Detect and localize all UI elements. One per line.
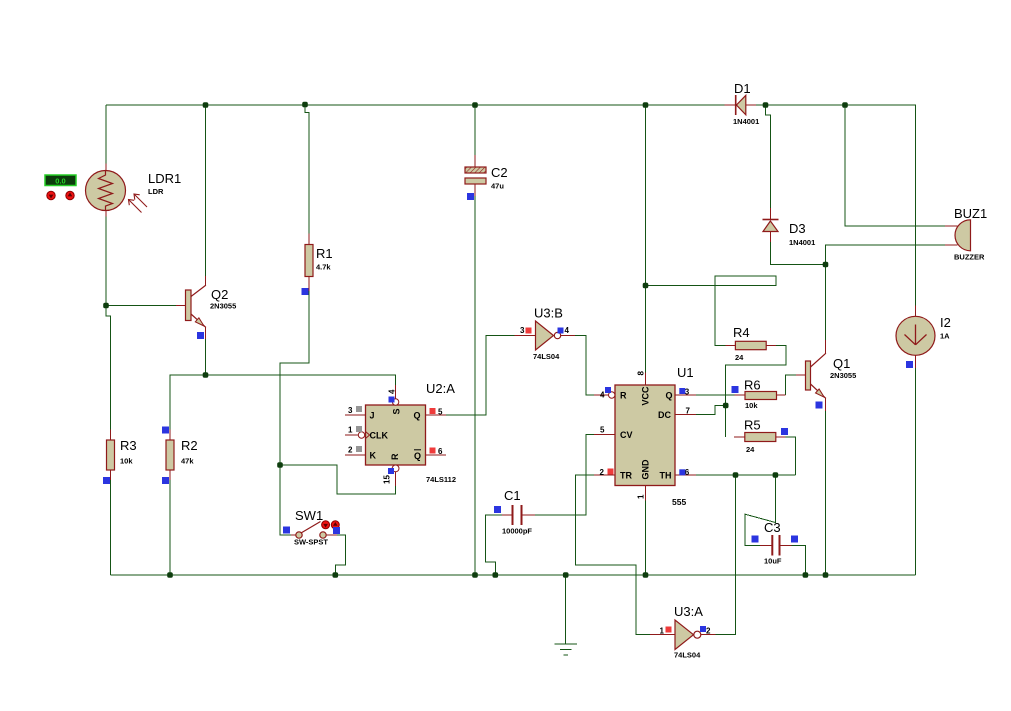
pin SW1 left xyxy=(291,534,296,536)
switch SW1 actuator down xyxy=(322,521,330,529)
svg-text:SW-SPST: SW-SPST xyxy=(294,538,328,547)
svg-text:S: S xyxy=(392,408,402,414)
wire node down to Q1 collector xyxy=(825,265,827,341)
pin D1 anode-side left xyxy=(725,104,736,106)
LDR1 down actuator xyxy=(47,191,55,199)
svg-text:R2: R2 xyxy=(181,438,198,453)
buzzer BUZ1 xyxy=(955,220,971,251)
transistor Q1 collector stroke xyxy=(811,353,826,367)
logic state U1 R pin xyxy=(605,387,611,393)
logic state U3:A input xyxy=(666,627,672,633)
U3:A output bubble xyxy=(694,631,701,638)
svg-text:1: 1 xyxy=(348,426,353,435)
logic state U1 TR pin xyxy=(608,469,614,475)
inverter U3:B triangle xyxy=(536,321,554,350)
pin U3:A input (1) xyxy=(650,634,675,636)
pin U1 CV (5) xyxy=(594,434,615,436)
switch SW1 right pole xyxy=(320,532,326,538)
svg-text:6: 6 xyxy=(438,447,443,456)
svg-text:3: 3 xyxy=(348,406,353,415)
svg-text:4: 4 xyxy=(600,391,605,400)
pin I2 top xyxy=(915,306,917,317)
svg-text:8: 8 xyxy=(637,371,646,376)
svg-text:C1: C1 xyxy=(504,488,521,503)
wire top rail to C2 top xyxy=(474,105,476,155)
svg-text:6: 6 xyxy=(685,468,690,477)
pin U1 GND (1) xyxy=(645,486,647,501)
wire R5 right down to TH row xyxy=(786,437,796,475)
pin BUZ1 bottom xyxy=(945,244,958,246)
transistor Q1 emitter stroke with arrow xyxy=(811,384,826,398)
pin C2 bottom xyxy=(474,184,476,196)
logic state U2:A Qbar pin xyxy=(430,448,436,454)
pin BUZ1 top xyxy=(945,225,958,227)
wire ground rail to ground symbol xyxy=(565,575,567,644)
wire ground rail to C1 left xyxy=(486,515,503,575)
junction R4-R5 / U1 DC xyxy=(723,403,729,409)
svg-text:Q: Q xyxy=(666,391,673,401)
pin C3 right xyxy=(780,544,792,546)
pin R2 top xyxy=(169,430,171,441)
U1 R bubble xyxy=(609,392,615,398)
pin C1 left xyxy=(502,514,512,516)
node marker R6 left xyxy=(732,386,739,393)
svg-text:BUZ1: BUZ1 xyxy=(954,206,987,221)
wire top rail to Q2 collector xyxy=(205,105,207,276)
wire right side below I2 to bottom rail xyxy=(915,368,917,575)
svg-text:7: 7 xyxy=(686,407,691,416)
timer U1 555 body xyxy=(615,385,675,486)
wire Q1 collector node to BUZ1 bottom pin xyxy=(826,245,945,265)
resistor R1 xyxy=(305,245,313,277)
diode D3 cathode bar xyxy=(763,219,779,221)
svg-text:Q2: Q2 xyxy=(211,287,228,302)
pin D3 top xyxy=(769,208,771,219)
junction top rail / C2 xyxy=(472,102,478,108)
svg-text:1: 1 xyxy=(637,494,646,499)
node marker C1 left xyxy=(494,506,501,513)
svg-text:10k: 10k xyxy=(745,401,758,410)
junction ground rail / U1 GND xyxy=(643,572,649,578)
svg-text:C2: C2 xyxy=(491,165,508,180)
svg-text:555: 555 xyxy=(672,497,686,507)
wire top rail to LDR1 top xyxy=(105,105,107,164)
wire top supply bus right of D1 down right side to I2 xyxy=(756,105,916,306)
wire U1 DC pin to R4/R5 node xyxy=(696,406,726,415)
pin D3 bottom xyxy=(769,232,771,242)
switch SW1 lever xyxy=(301,522,321,534)
wire base node to Q2 base xyxy=(106,305,176,307)
junction top rail / BUZ1 top xyxy=(842,102,848,108)
pin U1 R (4) xyxy=(594,394,608,396)
node marker R2 top xyxy=(162,427,169,434)
svg-text:R6: R6 xyxy=(744,378,761,393)
svg-text:CV: CV xyxy=(620,430,633,440)
logic state U1 TH pin xyxy=(679,469,685,475)
pin R2 bottom xyxy=(169,470,171,480)
junction R1 net / U2:A R / SW1 xyxy=(277,462,283,468)
wire U3:B output to U1 R pin xyxy=(575,336,594,396)
transistor Q2 emitter stroke with arrow xyxy=(191,314,206,327)
svg-text:24: 24 xyxy=(735,353,744,362)
wire TH node down to U3:A output xyxy=(715,475,735,635)
svg-text:1: 1 xyxy=(660,627,665,636)
svg-text:2: 2 xyxy=(348,446,353,455)
svg-text:U3:A: U3:A xyxy=(674,604,703,619)
pin U2:A CLK (1) xyxy=(345,434,359,436)
resistor R6 xyxy=(745,392,777,400)
svg-text:Q: Q xyxy=(414,411,421,421)
wire R1 bottom down to SW1 left pin xyxy=(280,291,309,535)
svg-text:R1: R1 xyxy=(316,246,333,261)
svg-text:2N3055: 2N3055 xyxy=(830,371,856,380)
U2:A clock triangle xyxy=(366,432,370,439)
pin R5 left xyxy=(734,436,745,438)
wire R6 right to Q1 base xyxy=(786,375,796,395)
pin R3 top xyxy=(110,430,112,441)
svg-text:DC: DC xyxy=(658,410,671,420)
node marker R3 bottom xyxy=(103,477,110,484)
svg-text:TH: TH xyxy=(660,471,672,481)
svg-text:GND: GND xyxy=(641,459,651,480)
wire top rail to U1 VCC pin xyxy=(645,105,647,372)
svg-text:4.7k: 4.7k xyxy=(316,263,331,272)
pin U2:A Q (5) xyxy=(426,414,446,416)
node marker SW1 left xyxy=(283,527,290,534)
junction D3 / BUZ1 / Q1 collector xyxy=(823,262,829,268)
floating state U2:A K pin xyxy=(356,446,362,452)
wire R2 bottom to ground rail xyxy=(169,480,171,575)
svg-text:LDR: LDR xyxy=(148,187,164,196)
U2:A S bubble xyxy=(392,399,398,405)
wire U1 TR pin to U3:A input xyxy=(576,475,650,635)
svg-text:BUZZER: BUZZER xyxy=(954,253,985,262)
svg-text:47u: 47u xyxy=(491,182,504,191)
svg-text:R: R xyxy=(390,453,400,460)
logic state U3:A output xyxy=(700,626,706,632)
pin U2:A J (3) xyxy=(345,414,366,416)
svg-text:U2:A: U2:A xyxy=(426,381,455,396)
floating state U2:A CLK pin xyxy=(356,426,362,432)
photoresistor LDR1 xyxy=(86,171,126,211)
wire C2 bottom to ground rail xyxy=(474,196,476,575)
svg-text:5: 5 xyxy=(438,408,443,417)
diode D1 cathode bar xyxy=(735,95,737,115)
logic state U2:A Q pin xyxy=(430,408,436,414)
pin C3 left xyxy=(760,544,771,546)
node marker R2 bottom xyxy=(162,477,169,484)
svg-text:U1: U1 xyxy=(677,365,694,380)
svg-text:R5: R5 xyxy=(744,418,761,433)
capacitor C2 negative plate xyxy=(465,178,486,184)
pin R5 right xyxy=(776,436,786,438)
pin R4 left xyxy=(726,345,736,347)
U2:A R bubble xyxy=(392,465,399,472)
svg-text:C3: C3 xyxy=(764,520,781,535)
svg-text:VCC: VCC xyxy=(641,386,651,406)
wire U1 Q pin to R6 left xyxy=(696,394,735,396)
svg-text:10k: 10k xyxy=(120,457,133,466)
svg-text:Q: Q xyxy=(414,451,421,461)
svg-text:CLK: CLK xyxy=(370,431,389,441)
svg-text:I2: I2 xyxy=(940,315,951,330)
pin R6 left xyxy=(735,394,745,396)
current source I2 xyxy=(896,316,935,355)
logic state U2:A R pin xyxy=(388,468,394,474)
pin LDR1 top xyxy=(105,164,107,171)
LDR1 up actuator xyxy=(66,191,74,199)
wire Q2 emitter down to node xyxy=(205,339,207,375)
svg-text:U3:B: U3:B xyxy=(534,306,563,321)
svg-text:D3: D3 xyxy=(789,221,806,236)
pin U3:B output (4) xyxy=(561,335,576,337)
junction top rail / D3 branch xyxy=(763,102,769,108)
ground symbol xyxy=(555,644,578,655)
node marker C3 right xyxy=(791,536,798,543)
wire bottom ground rail xyxy=(111,574,916,576)
junction ground rail / C1 xyxy=(493,572,499,578)
pin Q2 base xyxy=(176,305,186,307)
pin U1 DC (7) xyxy=(675,414,696,416)
svg-text:R4: R4 xyxy=(733,325,750,340)
wire R2 top / Q2 emitter row to U2:A S pin xyxy=(170,375,396,430)
svg-text:1A: 1A xyxy=(940,332,950,341)
junction top rail / U1 VCC xyxy=(643,102,649,108)
pin U2:A K (2) xyxy=(345,454,366,456)
junction ground rail / C3 xyxy=(803,572,809,578)
capacitor C3 plates xyxy=(771,535,773,556)
svg-text:4: 4 xyxy=(565,326,570,335)
switch SW1 actuator up xyxy=(331,521,339,529)
wire TH node to C3 left with diagonal xyxy=(745,475,775,545)
svg-text:1N4001: 1N4001 xyxy=(789,238,815,247)
junction ground rail / ground symbol xyxy=(563,572,569,578)
LDR1 light arrows xyxy=(129,194,148,213)
pin Q1 base xyxy=(796,374,806,376)
svg-text:R: R xyxy=(620,391,627,401)
svg-text:5: 5 xyxy=(600,426,605,435)
pin SW1 right xyxy=(326,534,337,536)
svg-text:TR: TR xyxy=(620,471,632,481)
resistor R2 xyxy=(166,440,174,470)
svg-text:10000pF: 10000pF xyxy=(502,527,532,536)
capacitor C2 positive hatched plate xyxy=(465,167,486,173)
LDR1 brightness display box xyxy=(45,175,76,186)
wire SW1 right pin to ground rail xyxy=(335,535,345,575)
svg-text:K: K xyxy=(370,451,377,461)
wire R3 bottom to ground rail xyxy=(110,480,112,575)
svg-text:R3: R3 xyxy=(120,438,137,453)
pin LDR1 bottom xyxy=(105,211,107,217)
junction ground rail / R2 xyxy=(167,572,173,578)
junction TH / C3 xyxy=(773,472,779,478)
svg-text:3: 3 xyxy=(520,326,525,335)
wire U1 TH pin row xyxy=(696,474,796,476)
floating state U2:A J pin xyxy=(356,406,362,412)
wire base node down to R3 top xyxy=(106,306,111,430)
pin R1 top xyxy=(308,234,310,245)
pin R3 bottom xyxy=(110,470,112,480)
pin U2:A R (15) xyxy=(395,472,397,486)
svg-text:24: 24 xyxy=(746,445,755,454)
svg-text:0.0: 0.0 xyxy=(55,177,65,186)
wire top rail jog down to D3 cathode xyxy=(766,105,771,208)
wire C3 right to ground rail xyxy=(792,545,806,575)
node marker C3 left xyxy=(752,536,759,543)
node marker C2 bottom xyxy=(467,193,474,200)
logic state U2:A S pin xyxy=(389,397,395,403)
junction ground rail / C2 xyxy=(472,572,478,578)
junction top rail / R1 xyxy=(302,102,308,108)
svg-text:2: 2 xyxy=(600,468,605,477)
capacitor C1 plates xyxy=(512,505,514,525)
U3:B output bubble xyxy=(554,332,560,338)
node marker Q2 emitter xyxy=(197,332,204,339)
diode D1 triangle xyxy=(736,95,745,114)
junction top rail / Q2 collector xyxy=(203,102,209,108)
node marker R5 right xyxy=(781,428,788,435)
svg-text:2: 2 xyxy=(706,627,711,636)
wire VCC branch loop to R4 left xyxy=(646,276,776,346)
wire node to U2:A R pin xyxy=(280,465,396,494)
logic state U3:B output xyxy=(558,328,564,334)
pin U2:A S (4) xyxy=(395,385,397,400)
junction Q2 emitter / R2 / U2:A S xyxy=(203,372,209,378)
node marker I2 bottom xyxy=(906,361,913,368)
svg-text:3: 3 xyxy=(685,388,690,397)
U2:A CLK bubble xyxy=(358,432,364,438)
pin U1 Q (3) xyxy=(675,394,696,396)
wire D3 anode to Q1 collector node xyxy=(770,242,825,265)
wire Q1 emitter to ground rail xyxy=(825,411,827,575)
pin U3:A output (2) xyxy=(701,634,715,636)
wire top rail jog down to R1 top xyxy=(305,105,309,234)
node marker R1 bottom xyxy=(302,288,309,295)
svg-text:Q1: Q1 xyxy=(833,356,850,371)
wire top rail to BUZ1 top pin xyxy=(845,105,945,226)
pin U2:A Qbar (6) xyxy=(426,454,446,456)
junction ground rail / Q1 emitter xyxy=(823,572,829,578)
logic state U1 Q pin xyxy=(679,388,685,394)
svg-text:10uF: 10uF xyxy=(764,557,782,566)
transistor Q2 body bar xyxy=(186,290,192,321)
switch SW1 left pole xyxy=(296,532,302,538)
svg-text:15: 15 xyxy=(383,475,392,484)
wire U2:A Q pin to U3:B input xyxy=(446,336,515,416)
junction ground rail / SW1 xyxy=(333,572,339,578)
logic state U3:B input xyxy=(526,328,532,334)
svg-text:SW1: SW1 xyxy=(295,508,323,523)
junction TH / U3:A output xyxy=(733,472,739,478)
pin R4 right xyxy=(766,345,776,347)
pin U1 TR (2) xyxy=(594,474,615,476)
svg-text:74LS04: 74LS04 xyxy=(674,651,701,660)
wire R4 right down to R5 left xyxy=(726,346,786,438)
resistor R3 xyxy=(107,440,115,470)
resistor R4 xyxy=(735,341,766,349)
pin R1 bottom xyxy=(308,277,310,291)
flip-flop U2:A body xyxy=(366,405,426,465)
svg-text:4: 4 xyxy=(388,389,397,394)
pin I2 bottom xyxy=(915,356,917,369)
diode D3 triangle xyxy=(763,221,778,232)
wire top supply bus left of D1 xyxy=(106,104,725,106)
pin D1 right xyxy=(746,104,756,106)
pin U1 TH (6) xyxy=(675,474,696,476)
svg-text:2N3055: 2N3055 xyxy=(210,302,236,311)
svg-text:LDR1: LDR1 xyxy=(148,171,181,186)
transistor Q2 collector stroke xyxy=(191,285,206,296)
resistor R5 xyxy=(745,433,776,442)
svg-text:47k: 47k xyxy=(181,457,194,466)
junction VCC column / R4 branch xyxy=(643,283,649,289)
svg-text:D1: D1 xyxy=(734,81,751,96)
svg-text:1N4001: 1N4001 xyxy=(733,117,759,126)
pin U3:B input (3) xyxy=(515,335,536,337)
node marker SW1 right xyxy=(333,527,340,534)
pin R6 right xyxy=(777,394,786,396)
transistor Q1 body bar xyxy=(806,361,811,390)
junction LDR / Q2 base / R3 xyxy=(103,303,109,309)
wire LDR1 bottom to base node xyxy=(105,217,107,306)
node marker Q1 emitter xyxy=(816,402,823,409)
pin C1 right xyxy=(523,514,536,516)
pin C2 top xyxy=(474,155,476,167)
pin U1 VCC (8) xyxy=(645,372,647,385)
wire U1 GND pin to ground rail xyxy=(645,501,647,576)
svg-text:74LS04: 74LS04 xyxy=(533,352,560,361)
inverter U3:A triangle xyxy=(675,620,694,650)
svg-text:74LS112: 74LS112 xyxy=(426,475,456,484)
wire C1 right up to U1 CV pin xyxy=(535,435,594,516)
svg-text:J: J xyxy=(370,411,375,421)
